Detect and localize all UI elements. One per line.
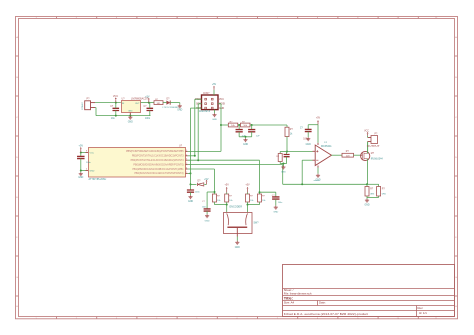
svg-text:G: G: [16, 277, 18, 279]
svg-text:ATTINY85-20SU: ATTINY85-20SU: [89, 178, 107, 181]
svg-text:OUT: OUT: [135, 103, 140, 105]
svg-text:CONN?: CONN?: [82, 101, 84, 109]
svg-text:GND: GND: [205, 221, 210, 223]
svg-text:1uF: 1uF: [256, 135, 260, 137]
svg-text:+5V: +5V: [225, 184, 230, 187]
svg-text:1: 1: [186, 150, 187, 152]
svg-text:IRLML6344: IRLML6344: [371, 159, 384, 161]
svg-text:Date:: Date:: [319, 301, 326, 305]
svg-text:10k: 10k: [229, 200, 232, 202]
svg-text:Sheet: /: Sheet: /: [284, 288, 294, 292]
svg-text:5: 5: [186, 163, 187, 165]
svg-text:6: 6: [186, 168, 187, 170]
svg-text:GND: GND: [219, 108, 224, 110]
svg-text:VCC: VCC: [219, 99, 224, 101]
svg-text:OUTPUT: OUTPUT: [367, 144, 380, 148]
svg-text:PB4(PCINT4/XTAL2/CLKO/OC1B/ADC: PB4(PCINT4/XTAL2/CLKO/OC1B/ADC2)/PCINT4: [131, 159, 185, 162]
svg-text:PB5(PCINT5/RESET/ADC0/dW)/PCIN: PB5(PCINT5/RESET/ADC0/dW)/PCINT5/RESET/P…: [126, 150, 184, 153]
svg-text:VCC: VCC: [90, 152, 95, 154]
svg-text:ENCODER: ENCODER: [230, 206, 243, 209]
svg-text:100n: 100n: [202, 206, 206, 208]
svg-text:GND: GND: [177, 109, 182, 111]
svg-text:100n: 100n: [278, 202, 282, 204]
svg-text:AVR-ISP-6: AVR-ISP-6: [199, 110, 211, 113]
svg-text:100n: 100n: [145, 118, 151, 120]
svg-text:PB1(MISO/DO/AIN1/OC0B/OC1A/PCI: PB1(MISO/DO/AIN1/OC0B/OC1A/PCINT1)/PB1: [132, 168, 184, 171]
svg-text:MCP6441: MCP6441: [321, 145, 332, 148]
svg-text:GND: GND: [364, 205, 369, 207]
svg-text:Id: 1/1: Id: 1/1: [419, 311, 427, 315]
svg-text:Size: A4: Size: A4: [284, 301, 295, 305]
svg-text:PB0(MOSI/DI/SDA/AIN0/OC0A/AREF: PB0(MOSI/DI/SDA/AIN0/OC0A/AREF/PCINT0): [133, 163, 183, 166]
svg-text:GND: GND: [128, 121, 133, 123]
svg-text:+5V: +5V: [145, 96, 150, 99]
svg-text:10k: 10k: [217, 200, 220, 202]
svg-text:3: 3: [186, 159, 187, 161]
svg-text:+5V: +5V: [316, 117, 321, 120]
svg-text:+5V: +5V: [245, 184, 250, 187]
svg-text:GND: GND: [128, 111, 133, 113]
svg-text:10k: 10k: [262, 200, 265, 202]
svg-text:7: 7: [186, 172, 187, 174]
svg-text:GND: GND: [243, 144, 248, 146]
svg-text:2: 2: [186, 154, 187, 156]
svg-text:100n: 100n: [195, 192, 201, 194]
svg-text:PB2(SCK/USCK/SCL/ADC1/T0/INT0/: PB2(SCK/USCK/SCL/ADC1/T0/INT0/PCINT2): [134, 172, 183, 175]
svg-text:100n: 100n: [86, 162, 92, 164]
svg-text:GND: GND: [212, 119, 217, 121]
svg-text:+5V: +5V: [79, 144, 84, 147]
svg-text:GND: GND: [306, 144, 311, 146]
svg-text:GND: GND: [273, 212, 278, 214]
svg-text:10k: 10k: [250, 200, 253, 202]
svg-text:PB3(PCINT3/XTAL1/CLKI/OC1B/ADC: PB3(PCINT3/XTAL1/CLKI/OC1B/ADC3)/PCINT3: [132, 155, 184, 158]
svg-text:+5V: +5V: [212, 83, 217, 86]
svg-text:GND: GND: [188, 201, 193, 203]
svg-text:VCC: VCC: [113, 95, 118, 98]
svg-text:GND: GND: [78, 177, 83, 179]
svg-text:Rev:: Rev:: [418, 306, 424, 310]
svg-text:KiCad E.D.A. eeschema (2013-0: KiCad E.D.A. eeschema (2013-07-07 BZR 40…: [284, 312, 368, 316]
svg-text:GND: GND: [281, 172, 286, 174]
svg-text:SW?: SW?: [254, 222, 260, 224]
svg-text:CON?: CON?: [203, 93, 210, 95]
svg-text:+5V: +5V: [204, 178, 209, 181]
svg-text:VCC: VCC: [364, 131, 369, 133]
svg-text:G: G: [455, 277, 457, 279]
svg-text:GND: GND: [90, 170, 95, 172]
svg-text:sense: sense: [314, 180, 321, 182]
svg-text:GND: GND: [235, 247, 240, 249]
